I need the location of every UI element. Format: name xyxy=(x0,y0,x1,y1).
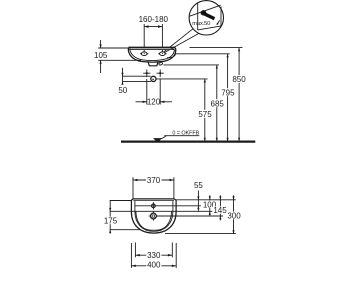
dimension 160-180 dimension line xyxy=(144,26,162,28)
bowl back line long (with 175/100 extensions) xyxy=(110,210,213,212)
dimension 120 extension line right xyxy=(159,79,161,105)
bowl outline xyxy=(136,211,172,230)
dimension 175 bottom line xyxy=(110,229,140,231)
drain line right xyxy=(156,215,223,217)
basin drain outlet right tab xyxy=(158,62,162,66)
svg-text:575: 575 xyxy=(198,110,212,119)
detail leader line 1 xyxy=(162,29,193,54)
basin drain outlet trapezoid xyxy=(148,61,158,66)
drain circle plan xyxy=(151,213,157,219)
drain circle front view xyxy=(151,76,156,81)
dimension 300 line xyxy=(233,195,235,233)
dimension 105 arrow bottom xyxy=(100,60,102,64)
dimension 120 dimension line left segment xyxy=(136,101,147,103)
detail screw head (black) xyxy=(201,10,207,16)
floor line xyxy=(121,141,255,143)
dimension 120 arrow left xyxy=(143,101,147,103)
fixing hole right xyxy=(160,52,166,56)
svg-text:120: 120 xyxy=(147,97,161,106)
level marker triangle xyxy=(153,138,162,143)
svg-text:400: 400 xyxy=(147,261,161,270)
svg-text:850: 850 xyxy=(232,75,246,84)
dimension 160-180 arrow right xyxy=(158,25,162,28)
detail wall vertical line xyxy=(197,3,199,30)
extension line 575 level xyxy=(156,78,208,80)
dimension 50 top tangent line xyxy=(123,75,151,77)
dimension 160-180 extension line left xyxy=(143,24,145,52)
dimension 105 top extension line xyxy=(98,47,128,49)
dimension 370 extension line left xyxy=(132,177,134,199)
dimension 145 line xyxy=(219,195,221,220)
dimension 120 arrow right xyxy=(160,101,164,103)
detail small arrow mark xyxy=(217,20,220,24)
dimension 55 line xyxy=(197,191,199,211)
level marker line xyxy=(164,135,199,137)
basin front view rim hatch band xyxy=(129,48,174,50)
dimension 400 dimension line xyxy=(131,265,176,267)
basin front view right rim curl xyxy=(165,47,176,57)
dimension 160-180 arrow left xyxy=(144,25,148,28)
dimension 370 arrows xyxy=(133,179,137,181)
fixing hole left tick xyxy=(140,53,148,55)
dimension 330 dimension line xyxy=(135,254,172,256)
dimension 175 top reference (back edge extended left) xyxy=(110,200,132,202)
basin front view inner bowl line xyxy=(130,48,175,61)
dimension 50 vertical line xyxy=(122,68,124,85)
dimension 370 extension line right xyxy=(173,177,175,199)
dimension 105 bottom extension line xyxy=(98,59,141,61)
svg-text:105: 105 xyxy=(94,51,108,60)
extension line 795 level xyxy=(175,53,230,55)
dimension 575 line xyxy=(204,79,206,141)
detail arrow head small xyxy=(217,23,219,25)
extension line 685 level xyxy=(164,64,220,66)
tap hole tick xyxy=(152,202,154,209)
detail screw shaft (black) xyxy=(204,12,215,20)
fixing hole left xyxy=(141,52,147,56)
svg-text:370: 370 xyxy=(147,176,161,185)
svg-text:300: 300 xyxy=(227,212,241,221)
svg-text:160-180: 160-180 xyxy=(139,15,169,24)
level marker diagonal xyxy=(162,136,167,139)
dimension 175 line xyxy=(109,201,111,234)
basin front view top rim line xyxy=(129,46,176,48)
plan inner rim line xyxy=(135,201,173,232)
detail circle xyxy=(189,1,223,35)
dimension 400 extension lines xyxy=(130,243,132,268)
extension line 850 level xyxy=(190,47,243,49)
dimension 50 arrow bottom xyxy=(121,81,123,84)
water connection cross left xyxy=(146,70,148,78)
water connection cross right xyxy=(159,70,161,78)
dimension 105 arrow top xyxy=(100,44,102,48)
detail right vertical line xyxy=(220,7,222,26)
basin front view rim second line xyxy=(129,49,174,51)
dimension 50 bottom tangent line xyxy=(123,80,152,82)
drain ticks xyxy=(152,211,154,213)
detail bottom line xyxy=(198,26,222,30)
svg-text:50: 50 xyxy=(118,86,127,95)
dimension 105 line xyxy=(100,40,102,48)
detail diagonal line xyxy=(189,5,221,16)
fixing hole right tick xyxy=(158,53,166,55)
dimension 120 dimension line right segment xyxy=(160,101,172,103)
plan front extension line right xyxy=(165,233,236,235)
plan back edge second line xyxy=(133,200,174,202)
detail leader line 2 xyxy=(164,33,199,52)
dimension 370 text xyxy=(146,176,162,184)
tap hole xyxy=(152,204,156,208)
svg-text:55: 55 xyxy=(194,181,203,190)
dimension 160-180 extension line right xyxy=(161,24,163,52)
svg-text:0 = OKFFB: 0 = OKFFB xyxy=(172,131,199,137)
dimension 685 line xyxy=(216,65,218,141)
basin front view outer bowl xyxy=(128,47,175,62)
svg-text:685: 685 xyxy=(211,99,225,108)
plan back edge top line xyxy=(133,198,174,200)
dimension 330 extension lines xyxy=(134,243,136,258)
plan back extension line right xyxy=(176,199,236,201)
dimension 100 line xyxy=(209,195,211,215)
plan outer outline xyxy=(131,199,176,233)
svg-text:145: 145 xyxy=(213,206,227,215)
svg-text:795: 795 xyxy=(221,88,235,97)
svg-text:max.50: max.50 xyxy=(192,21,210,27)
svg-text:175: 175 xyxy=(104,217,118,226)
dimension 120 extension line left xyxy=(146,79,148,105)
drain inner square xyxy=(152,215,154,217)
dimension 795 line xyxy=(227,54,229,142)
svg-text:330: 330 xyxy=(147,251,161,260)
dimension 850 line xyxy=(238,48,240,142)
dimension 370 dimension line xyxy=(133,179,174,181)
tap hole line xyxy=(135,205,201,207)
dimension 50 arrow top xyxy=(121,73,123,76)
